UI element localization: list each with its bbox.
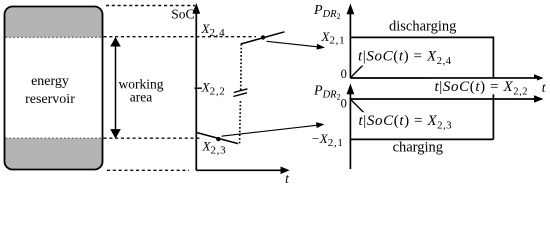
dotted jump line lower part bbox=[240, 100, 241, 144]
label P_DR2 (bottom) bbox=[313, 84, 341, 102]
svg-text:X2,3: X2,3 bbox=[202, 139, 227, 157]
svg-text:charging: charging bbox=[393, 140, 443, 156]
P_DR2 axis (bottom plot, vertical) bbox=[347, 84, 355, 170]
svg-text:PDR2: PDR2 bbox=[313, 3, 341, 21]
svg-text:discharging: discharging bbox=[389, 19, 456, 35]
svg-text:−X2,1: −X2,1 bbox=[311, 131, 344, 149]
text: t|SoC(t)=X2,2 with background (between plots) bbox=[431, 79, 538, 98]
t axis of SoC plot (horizontal) bbox=[196, 167, 289, 175]
dashed guide line: X2,3 level bbox=[104, 137, 203, 139]
svg-text:t: t bbox=[285, 171, 290, 186]
P_DR2 axis (top plot, vertical) bbox=[347, 4, 355, 79]
tick X2,2 bbox=[195, 87, 203, 89]
discharging pulse: top edge and falling edge (continues to lower plot) bbox=[350, 37, 493, 139]
svg-text:t: t bbox=[542, 80, 547, 95]
svg-text:SoC: SoC bbox=[171, 7, 194, 22]
label P_DR2 (top) bbox=[313, 3, 341, 21]
dashed guide line: X2,4 level bbox=[104, 36, 257, 38]
svg-text:reservoir: reservoir bbox=[25, 92, 75, 107]
text: t|SoC(t)=X2,4 with background bbox=[354, 48, 468, 67]
axis break slashes bbox=[234, 89, 248, 93]
arrow to -X2,1 bbox=[222, 122, 325, 136]
svg-text:X2,1: X2,1 bbox=[321, 29, 346, 47]
svg-text:area: area bbox=[130, 90, 152, 105]
charging pulse: bottom edge bbox=[350, 138, 493, 140]
energy reservoir box bbox=[5, 7, 103, 170]
text: t|SoC(t)=X2,3 with background bbox=[355, 112, 469, 132]
diagonal stub from origin (top plot) bbox=[351, 61, 367, 77]
arrow to X2,1 bbox=[267, 41, 326, 49]
SoC curve rising segment bbox=[241, 32, 285, 44]
svg-text:PDR2: PDR2 bbox=[313, 84, 341, 102]
dashed guide line: reservoir top to SoC axis bbox=[106, 5, 195, 7]
svg-text:X2,2: X2,2 bbox=[201, 80, 226, 98]
dot on X2,4 crossing bbox=[261, 35, 265, 39]
SoC curve descending segment bbox=[197, 133, 238, 144]
dotted jump line upper part bbox=[240, 44, 243, 90]
dot on X2,3 crossing bbox=[216, 137, 220, 141]
diagonal stub from origin (bottom plot) bbox=[351, 100, 366, 115]
svg-text:energy: energy bbox=[31, 74, 69, 89]
lower band boundary dashed line bbox=[6, 137, 102, 139]
svg-text:0: 0 bbox=[341, 67, 347, 81]
svg-text:0: 0 bbox=[341, 97, 347, 111]
t axis (top plot, horizontal) bbox=[350, 74, 543, 81]
upper band boundary dashed line bbox=[6, 36, 102, 38]
working area double arrow bbox=[110, 37, 121, 139]
dashed guide line: reservoir bottom to t axis origin bbox=[107, 169, 189, 171]
t axis (bottom plot, horizontal) bbox=[350, 95, 543, 102]
SoC axis (vertical) bbox=[192, 3, 200, 170]
